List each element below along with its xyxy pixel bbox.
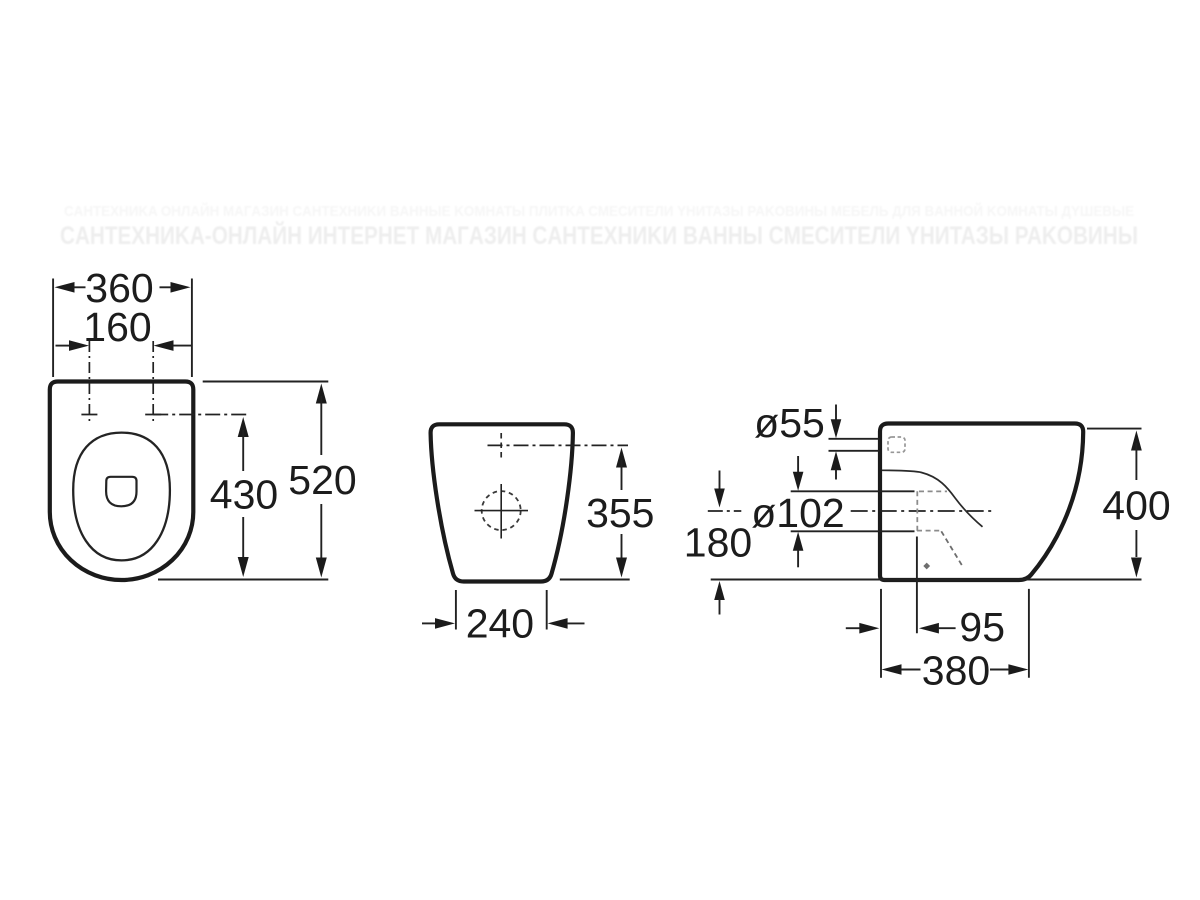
ext line 240 right [546,590,548,630]
ext line 360 left [52,279,54,378]
o102 arrow up [793,532,804,551]
dim 355 [616,448,627,468]
ext line 380 left [880,589,882,678]
dim 160 arrows [56,345,71,347]
o55 arrow down [835,405,837,422]
hole centerline right [152,341,154,423]
floor line [711,579,1142,581]
svg-text:CAHTEXHИKA OHЛAЙH MAГAЗИH CAHT: CAHTEXHИKA OHЛAЙH MAГAЗИH CAHTEXHИKИ BAH… [64,202,1134,220]
front top fixing cross [500,433,502,458]
drain cross horizontal [475,510,529,512]
hole cross left [81,414,97,416]
svg-text:355: 355 [586,490,654,536]
svg-text:95: 95 [959,604,1005,650]
svg-text:ø55: ø55 [754,400,825,446]
dashed supply hole o55 [888,437,905,452]
svg-text:400: 400 [1102,483,1170,529]
dim 95 arrows [846,627,861,629]
o102 leader bottom [791,530,915,532]
outlet diamond [923,563,930,570]
o55 leader top [829,438,880,440]
ext line 380 right [1028,589,1030,678]
svg-text:CAHTEXHИKA-OHЛAЙH ИHTEPHET MAГ: CAHTEXHИKA-OHЛAЙH ИHTEPHET MAГAЗИH CAHTE… [60,220,1138,250]
outlet dashed vertical [916,491,918,531]
outlet dashed diagonal [941,531,963,568]
o55 arrow up [831,451,842,470]
hole centerline left [88,341,90,423]
front drain dashed circle [482,491,521,530]
hole cross right [145,414,161,416]
dim 180 arrow down [719,471,721,490]
ext line 400 top [1087,428,1142,430]
plan seat ring [73,433,170,561]
dim 380 arrows [882,664,902,675]
outlet centerline left [708,510,742,512]
dim 430 [238,417,249,437]
o102 leader top [791,490,915,492]
svg-text:520: 520 [288,457,356,503]
trap curve [882,470,983,527]
ext line 240 left [455,590,457,630]
o102 arrow down [797,456,799,473]
side view outline [880,424,1083,581]
ext line 360 right [191,279,193,378]
dim 520 [316,384,327,404]
ext line 520 top [203,381,329,383]
o55 leader bottom [829,450,880,452]
svg-text:160: 160 [83,304,151,350]
dim 360 arrows [55,282,75,293]
ext line 355 bottom [560,579,630,581]
drain cross vertical [500,484,502,539]
svg-text:380: 380 [922,647,990,693]
outlet dashed bottom [917,530,941,532]
outlet dashed top [919,490,947,492]
outlet centerline right [851,510,995,512]
ext line 95 [916,537,918,634]
plan water spot [106,477,136,507]
svg-text:240: 240 [466,601,534,647]
front top centerline [488,444,629,446]
ext line bottom [158,579,328,581]
front view outline [431,424,573,581]
plan view outline [50,382,194,581]
svg-text:ø102: ø102 [751,490,844,536]
dim 400 [1131,431,1142,451]
dim 240 arrows [422,622,436,624]
svg-text:180: 180 [684,520,752,566]
dim 180 arrow up [714,581,725,600]
centerline horizontal to 430 [153,414,248,416]
svg-text:430: 430 [210,472,278,518]
